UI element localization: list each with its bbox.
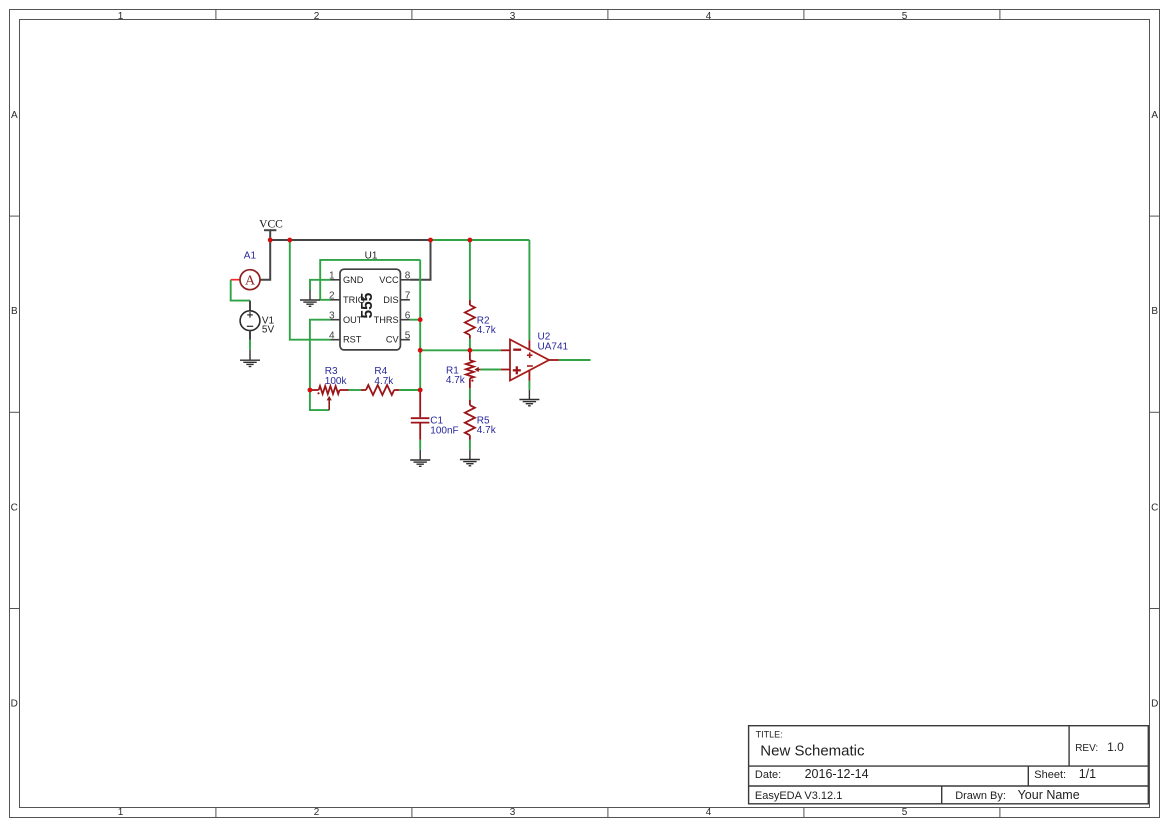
svg-text:2016-12-14: 2016-12-14 (805, 767, 869, 781)
svg-text:4.7k: 4.7k (477, 425, 497, 436)
svg-text:3: 3 (510, 11, 516, 22)
svg-text:100nF: 100nF (430, 425, 458, 436)
voltage source V1 (240, 301, 274, 340)
wire node row to op-amp minus input (420, 349, 501, 351)
svg-text:555: 555 (359, 292, 376, 318)
wire C1 to ground (419, 440, 421, 450)
junction VCC-RST (287, 238, 292, 243)
potentiometer R1 4.7k (446, 350, 481, 388)
wire R3 wiper loop (310, 390, 329, 410)
IC U1 555 (329, 250, 411, 350)
wire op-amp V+ drop (528, 240, 530, 340)
ammeter A1 (231, 250, 260, 289)
svg-text:RST: RST (343, 335, 362, 345)
junction THRS pin 6 (418, 317, 423, 322)
op-amp U2 UA741 (501, 331, 569, 380)
ground (V1) (240, 350, 260, 367)
svg-text:A1: A1 (244, 250, 257, 261)
svg-text:B: B (11, 306, 18, 317)
svg-text:5: 5 (902, 11, 908, 22)
svg-text:1/1: 1/1 (1079, 767, 1096, 781)
wire R2 bottom node (469, 339, 471, 351)
wire R4 to C1 node (399, 389, 420, 391)
wire R1 to R5 (469, 388, 471, 400)
junction R2-R1 (468, 348, 473, 353)
svg-text:A: A (11, 110, 18, 121)
svg-text:2: 2 (314, 807, 320, 818)
svg-text:5V: 5V (262, 325, 275, 336)
wire pin 6 to bus (410, 319, 420, 321)
wire A1 to V1 (231, 280, 250, 301)
ground (pin 1 of U1) (300, 290, 320, 306)
svg-text:Your Name: Your Name (1018, 788, 1080, 802)
junction R4-C1 (418, 388, 423, 393)
svg-text:C: C (11, 502, 18, 513)
svg-text:6: 6 (405, 311, 411, 322)
power flag VCC (259, 218, 283, 240)
resistor R5 4.7k (465, 400, 497, 440)
junction R3 left (308, 388, 313, 393)
wire THRS vertical bus (419, 260, 421, 390)
wire top rail green to op-amp supply (431, 239, 530, 241)
svg-text:4.7k: 4.7k (446, 375, 466, 386)
svg-text:EasyEDA V3.12.1: EasyEDA V3.12.1 (755, 790, 842, 802)
svg-text:New Schematic: New Schematic (760, 743, 865, 760)
svg-text:3: 3 (510, 807, 516, 818)
svg-text:GND: GND (343, 275, 364, 285)
svg-text:Drawn By:: Drawn By: (955, 790, 1006, 802)
svg-text:B: B (1151, 306, 1158, 317)
svg-text:3: 3 (329, 311, 335, 322)
svg-text:1: 1 (329, 271, 335, 282)
svg-text:CV: CV (386, 335, 400, 345)
svg-text:8: 8 (405, 271, 411, 282)
svg-text:5: 5 (405, 331, 411, 342)
wire pin 1 GND to ground (310, 280, 331, 290)
junction node bus (418, 348, 423, 353)
ground (op-amp U2) (519, 390, 539, 406)
svg-text:C: C (1151, 502, 1158, 513)
ground (C1) (410, 450, 430, 467)
svg-text:1: 1 (118, 11, 124, 22)
svg-text:TITLE:: TITLE: (756, 730, 783, 740)
svg-text:DIS: DIS (383, 295, 398, 305)
ground (R5) (460, 450, 480, 466)
wire VCC top rail (dark) (270, 239, 430, 241)
resistor R2 4.7k (465, 300, 497, 339)
svg-text:4.7k: 4.7k (374, 376, 394, 387)
svg-text:A: A (1151, 110, 1158, 121)
svg-text:VCC: VCC (379, 275, 399, 285)
svg-text:1: 1 (118, 807, 124, 818)
wire op-amp V- to ground (528, 381, 530, 390)
svg-text:VCC: VCC (259, 218, 283, 230)
svg-text:D: D (1151, 699, 1158, 710)
title block (749, 726, 1149, 804)
wire op-amp output (559, 359, 591, 361)
svg-text:Sheet:: Sheet: (1034, 769, 1066, 781)
wire VCC to RST pin 4 (290, 240, 331, 340)
wire OUT to R3 (310, 320, 331, 390)
svg-text:1.0: 1.0 (1107, 740, 1124, 754)
wire TRIG-THRS top link (320, 260, 420, 300)
svg-text:2: 2 (314, 11, 320, 22)
svg-text:4.7k: 4.7k (477, 325, 497, 336)
potentiometer R3 100k (310, 366, 349, 410)
svg-text:UA741: UA741 (538, 341, 569, 352)
svg-text:4: 4 (706, 11, 712, 22)
svg-text:D: D (11, 699, 18, 710)
junction top rail pin8 (428, 238, 433, 243)
wire V1 to ground (249, 340, 251, 350)
junction VCC-A1 (268, 238, 273, 243)
svg-text:4: 4 (706, 807, 712, 818)
svg-text:THRS: THRS (374, 315, 399, 325)
wire R2 top (469, 240, 471, 300)
svg-text:U1: U1 (365, 250, 378, 261)
wire R3 to R4 (349, 389, 362, 391)
svg-text:2: 2 (329, 291, 335, 302)
capacitor C1 100nF (411, 390, 459, 440)
svg-text:Date:: Date: (755, 769, 781, 781)
svg-text:7: 7 (405, 291, 411, 302)
resistor R4 4.7k (361, 366, 399, 395)
svg-text:100k: 100k (325, 376, 348, 387)
wire R1 wiper to op-amp plus input (481, 369, 501, 371)
svg-text:A: A (245, 274, 256, 289)
svg-text:4: 4 (329, 331, 335, 342)
wire top rail to U1 pin 8 (dark) (410, 240, 431, 280)
junction top rail R2 (468, 238, 473, 243)
wire R5 to ground (469, 440, 471, 450)
wire VCC to ammeter A1 (dark) (260, 240, 270, 280)
svg-text:5: 5 (902, 807, 908, 818)
svg-text:REV:: REV: (1075, 743, 1098, 754)
